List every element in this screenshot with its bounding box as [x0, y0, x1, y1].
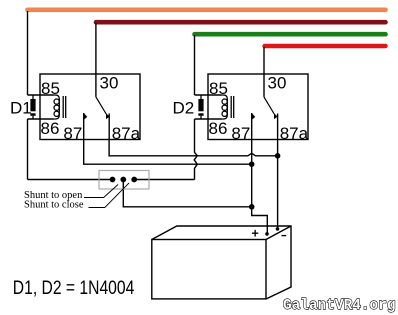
- svg-text:D2: D2: [173, 99, 195, 118]
- svg-text:D1: D1: [10, 99, 32, 118]
- svg-text:85: 85: [41, 79, 60, 98]
- svg-text:87a: 87a: [112, 124, 141, 143]
- svg-text:87: 87: [231, 124, 250, 143]
- svg-text:D1, D2 = 1N4004: D1, D2 = 1N4004: [13, 278, 135, 299]
- svg-text:30: 30: [100, 74, 119, 93]
- svg-text:30: 30: [268, 74, 287, 93]
- svg-text:Shunt to close: Shunt to close: [24, 200, 84, 211]
- svg-text:86: 86: [41, 119, 60, 138]
- svg-text:86: 86: [209, 119, 228, 138]
- svg-text:87a: 87a: [280, 124, 309, 143]
- svg-text:GalantVR4.org: GalantVR4.org: [283, 296, 396, 314]
- svg-text:+: +: [252, 227, 259, 241]
- svg-text:87: 87: [63, 124, 82, 143]
- svg-text:85: 85: [209, 79, 228, 98]
